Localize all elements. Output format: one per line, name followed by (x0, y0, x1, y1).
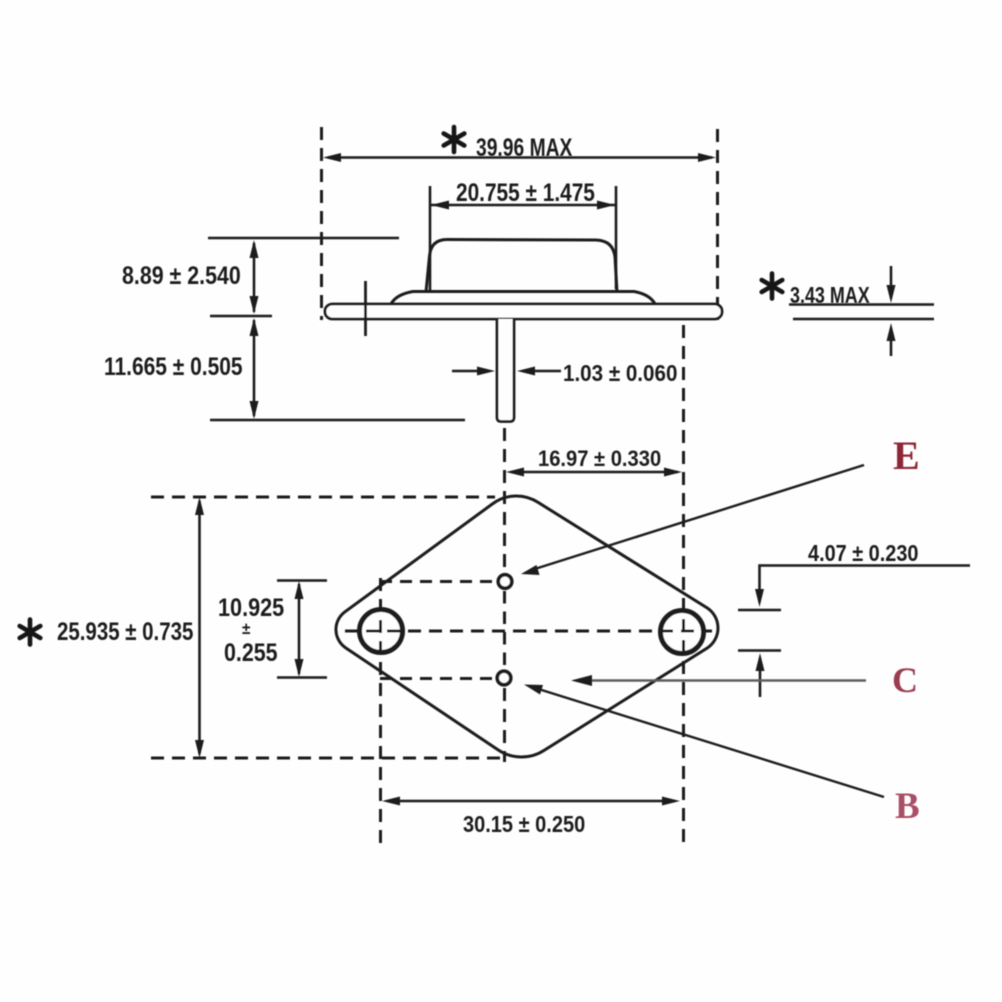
wire: 11.665 bottom reference line (pin bottom level) (210, 419, 465, 422)
transistor Q1 can dome (side view) (426, 240, 617, 293)
wire: 10.925 top reference line (277, 579, 327, 582)
wire: left extension dashed line of 39.96 dimension (320, 127, 323, 320)
wire: 4.07 top reference line with L bend (760, 566, 971, 603)
node: upper pin dashed horizontal (380, 580, 495, 583)
asterisk for 39.96 (444, 127, 465, 152)
wire: 8.89 dimension vertical with arrows (253, 243, 256, 312)
node: lower pin dashed horizontal (380, 677, 494, 680)
wire: 3.43 down arrow (890, 266, 893, 298)
transistor Q1 lead pin (side view) (497, 319, 514, 422)
svg-text:30.15 ± 0.250: 30.15 ± 0.250 (463, 811, 585, 838)
pin hole B (lower) (497, 671, 511, 685)
svg-text:0.255: 0.255 (224, 638, 278, 666)
wire: 8.89 bottom reference line (210, 315, 272, 318)
wire: 3.43 up arrow (890, 328, 893, 356)
wire: 11.665 dimension vertical with arrows (253, 320, 256, 416)
wire: 3.43 MAX flange-thickness reference lines (789, 303, 934, 306)
wire: leader line to emitter pin from E label (530, 465, 864, 571)
svg-text:E: E (893, 433, 920, 478)
wire: 4.07 short tick upper (738, 609, 781, 612)
node: hole center dashed horizontal (345, 630, 712, 633)
wire: 1.03 right arrow pointing at pin (530, 370, 561, 373)
wire: 10.925 dimension vertical (298, 584, 301, 674)
svg-text:±: ± (242, 619, 251, 638)
transistor Q1 flange outline (bottom view diamond) (336, 496, 718, 757)
svg-text:16.97 ± 0.330: 16.97 ± 0.330 (538, 447, 661, 471)
svg-text:11.665 ± 0.505: 11.665 ± 0.505 (104, 352, 243, 380)
svg-text:39.96 MAX: 39.96 MAX (476, 134, 572, 162)
svg-text:B: B (895, 786, 920, 827)
wire: 10.925 bottom reference line (277, 676, 327, 679)
wire: 25.935 dimension vertical (198, 501, 201, 754)
mounting hole left (360, 610, 403, 653)
pin hole E (upper) (498, 575, 512, 589)
svg-text:1.03 ± 0.060: 1.03 ± 0.060 (563, 360, 677, 386)
svg-text:8.89 ± 2.540: 8.89 ± 2.540 (122, 261, 241, 289)
asterisk for 25.935 (20, 620, 41, 645)
node: right hole-center dashed vertical line (682, 325, 685, 845)
wire: 39.96 MAX dimension line (328, 156, 712, 159)
svg-text:20.755 ± 1.475: 20.755 ± 1.475 (456, 178, 595, 206)
node: diamond top tip dashed horizontal (151, 496, 495, 499)
svg-text:25.935 ± 0.735: 25.935 ± 0.735 (57, 617, 194, 645)
svg-text:C: C (892, 660, 918, 700)
wire: 20.755 dimension line with end ticks (430, 204, 616, 207)
asterisk for 3.43 (762, 274, 783, 299)
wire: 4.07 up arrow tail (759, 658, 762, 697)
wire: leader line from C label (case collector) (578, 679, 866, 682)
wire: solid tick crossing flange at left (364, 281, 367, 336)
svg-text:3.43 MAX: 3.43 MAX (790, 283, 870, 309)
node: center dashed line from pin to bottom view (503, 428, 506, 570)
wire: 8.89 top reference line (208, 237, 399, 240)
wire: 4.07 short tick lower (738, 649, 781, 652)
wire: 1.03 left arrow pointing at pin (452, 370, 482, 373)
transistor Q1 mounting flange (side view) (325, 304, 722, 319)
wire: right extension dashed line of 39.96 dimension (716, 129, 719, 320)
wire: leader line to base pin from B label (532, 687, 884, 797)
svg-text:10.925: 10.925 (218, 594, 284, 622)
mounting hole right (661, 611, 704, 654)
transistor Q1 can skirt ledge (391, 292, 655, 305)
node: left hole-center dashed vertical line (379, 578, 382, 845)
wire: 16.97 dimension line (511, 471, 678, 474)
wire: 30.15 dimension line (387, 800, 675, 803)
svg-text:4.07 ± 0.230: 4.07 ± 0.230 (808, 541, 919, 567)
node: diamond bottom tip dashed horizontal (151, 757, 500, 760)
